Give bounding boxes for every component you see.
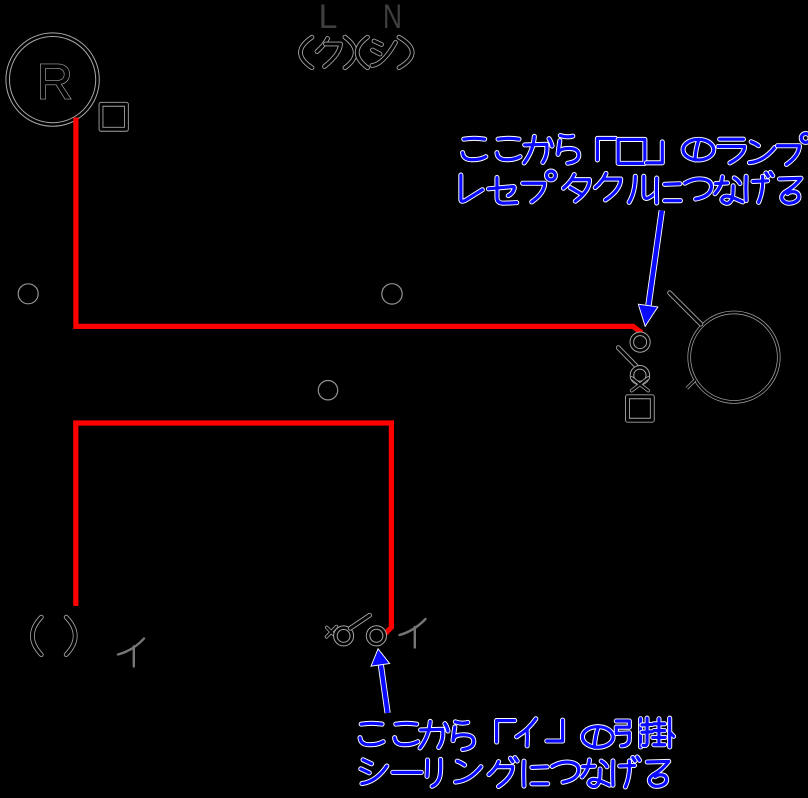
switch イ left contact — [335, 628, 351, 644]
label ロ (under switch) — [628, 397, 653, 420]
switch イ right contact — [368, 628, 385, 645]
svg-text:R: R — [37, 53, 73, 110]
label ロ (near receptacle) — [101, 104, 126, 129]
ceiling light tick — [687, 380, 695, 388]
red wire 2 (switch イ loop) — [76, 423, 392, 634]
svg-text:L: L — [319, 0, 338, 36]
lamp receptacle R (circle) — [8, 35, 98, 125]
junction node C — [318, 381, 337, 400]
switch イ cross mark — [327, 627, 337, 637]
svg-text:N: N — [383, 0, 402, 36]
switch ロ cross mark — [632, 378, 648, 391]
switch ロ bottom contact — [632, 367, 648, 383]
blue annotation 2 line 2: シーリングにつなげる — [361, 757, 669, 787]
terminal L — [319, 0, 338, 36]
blue annotation 1 line 2: レセプタクルにつなげる — [461, 171, 801, 203]
blue annotation 2 line 1: ここから「イ」の引掛 — [360, 718, 674, 749]
red wire 1 (source L to switch ロ) — [76, 118, 642, 333]
label (ク) — [301, 37, 356, 67]
ceiling light stem — [670, 293, 701, 324]
ceiling rosette ( ) bottom left — [32, 617, 75, 654]
switch ロ lever — [618, 348, 637, 368]
blue annotation 1 line 1: ここから「ロ」のランプ — [463, 134, 808, 165]
label (シ) — [357, 37, 412, 67]
ceiling light (big circle) — [689, 312, 779, 402]
blue arrow 1 — [639, 211, 662, 326]
letter R inside receptacle — [37, 53, 73, 110]
junction node B — [382, 284, 402, 304]
label イ (bottom left) — [118, 639, 144, 667]
label イ (switch) — [400, 619, 426, 648]
switch ロ (right, vertical): top contact — [632, 334, 649, 351]
switch イ lever — [350, 615, 369, 628]
junction node A — [18, 284, 38, 304]
terminal N — [383, 0, 402, 36]
blue arrow 2 — [372, 650, 389, 713]
